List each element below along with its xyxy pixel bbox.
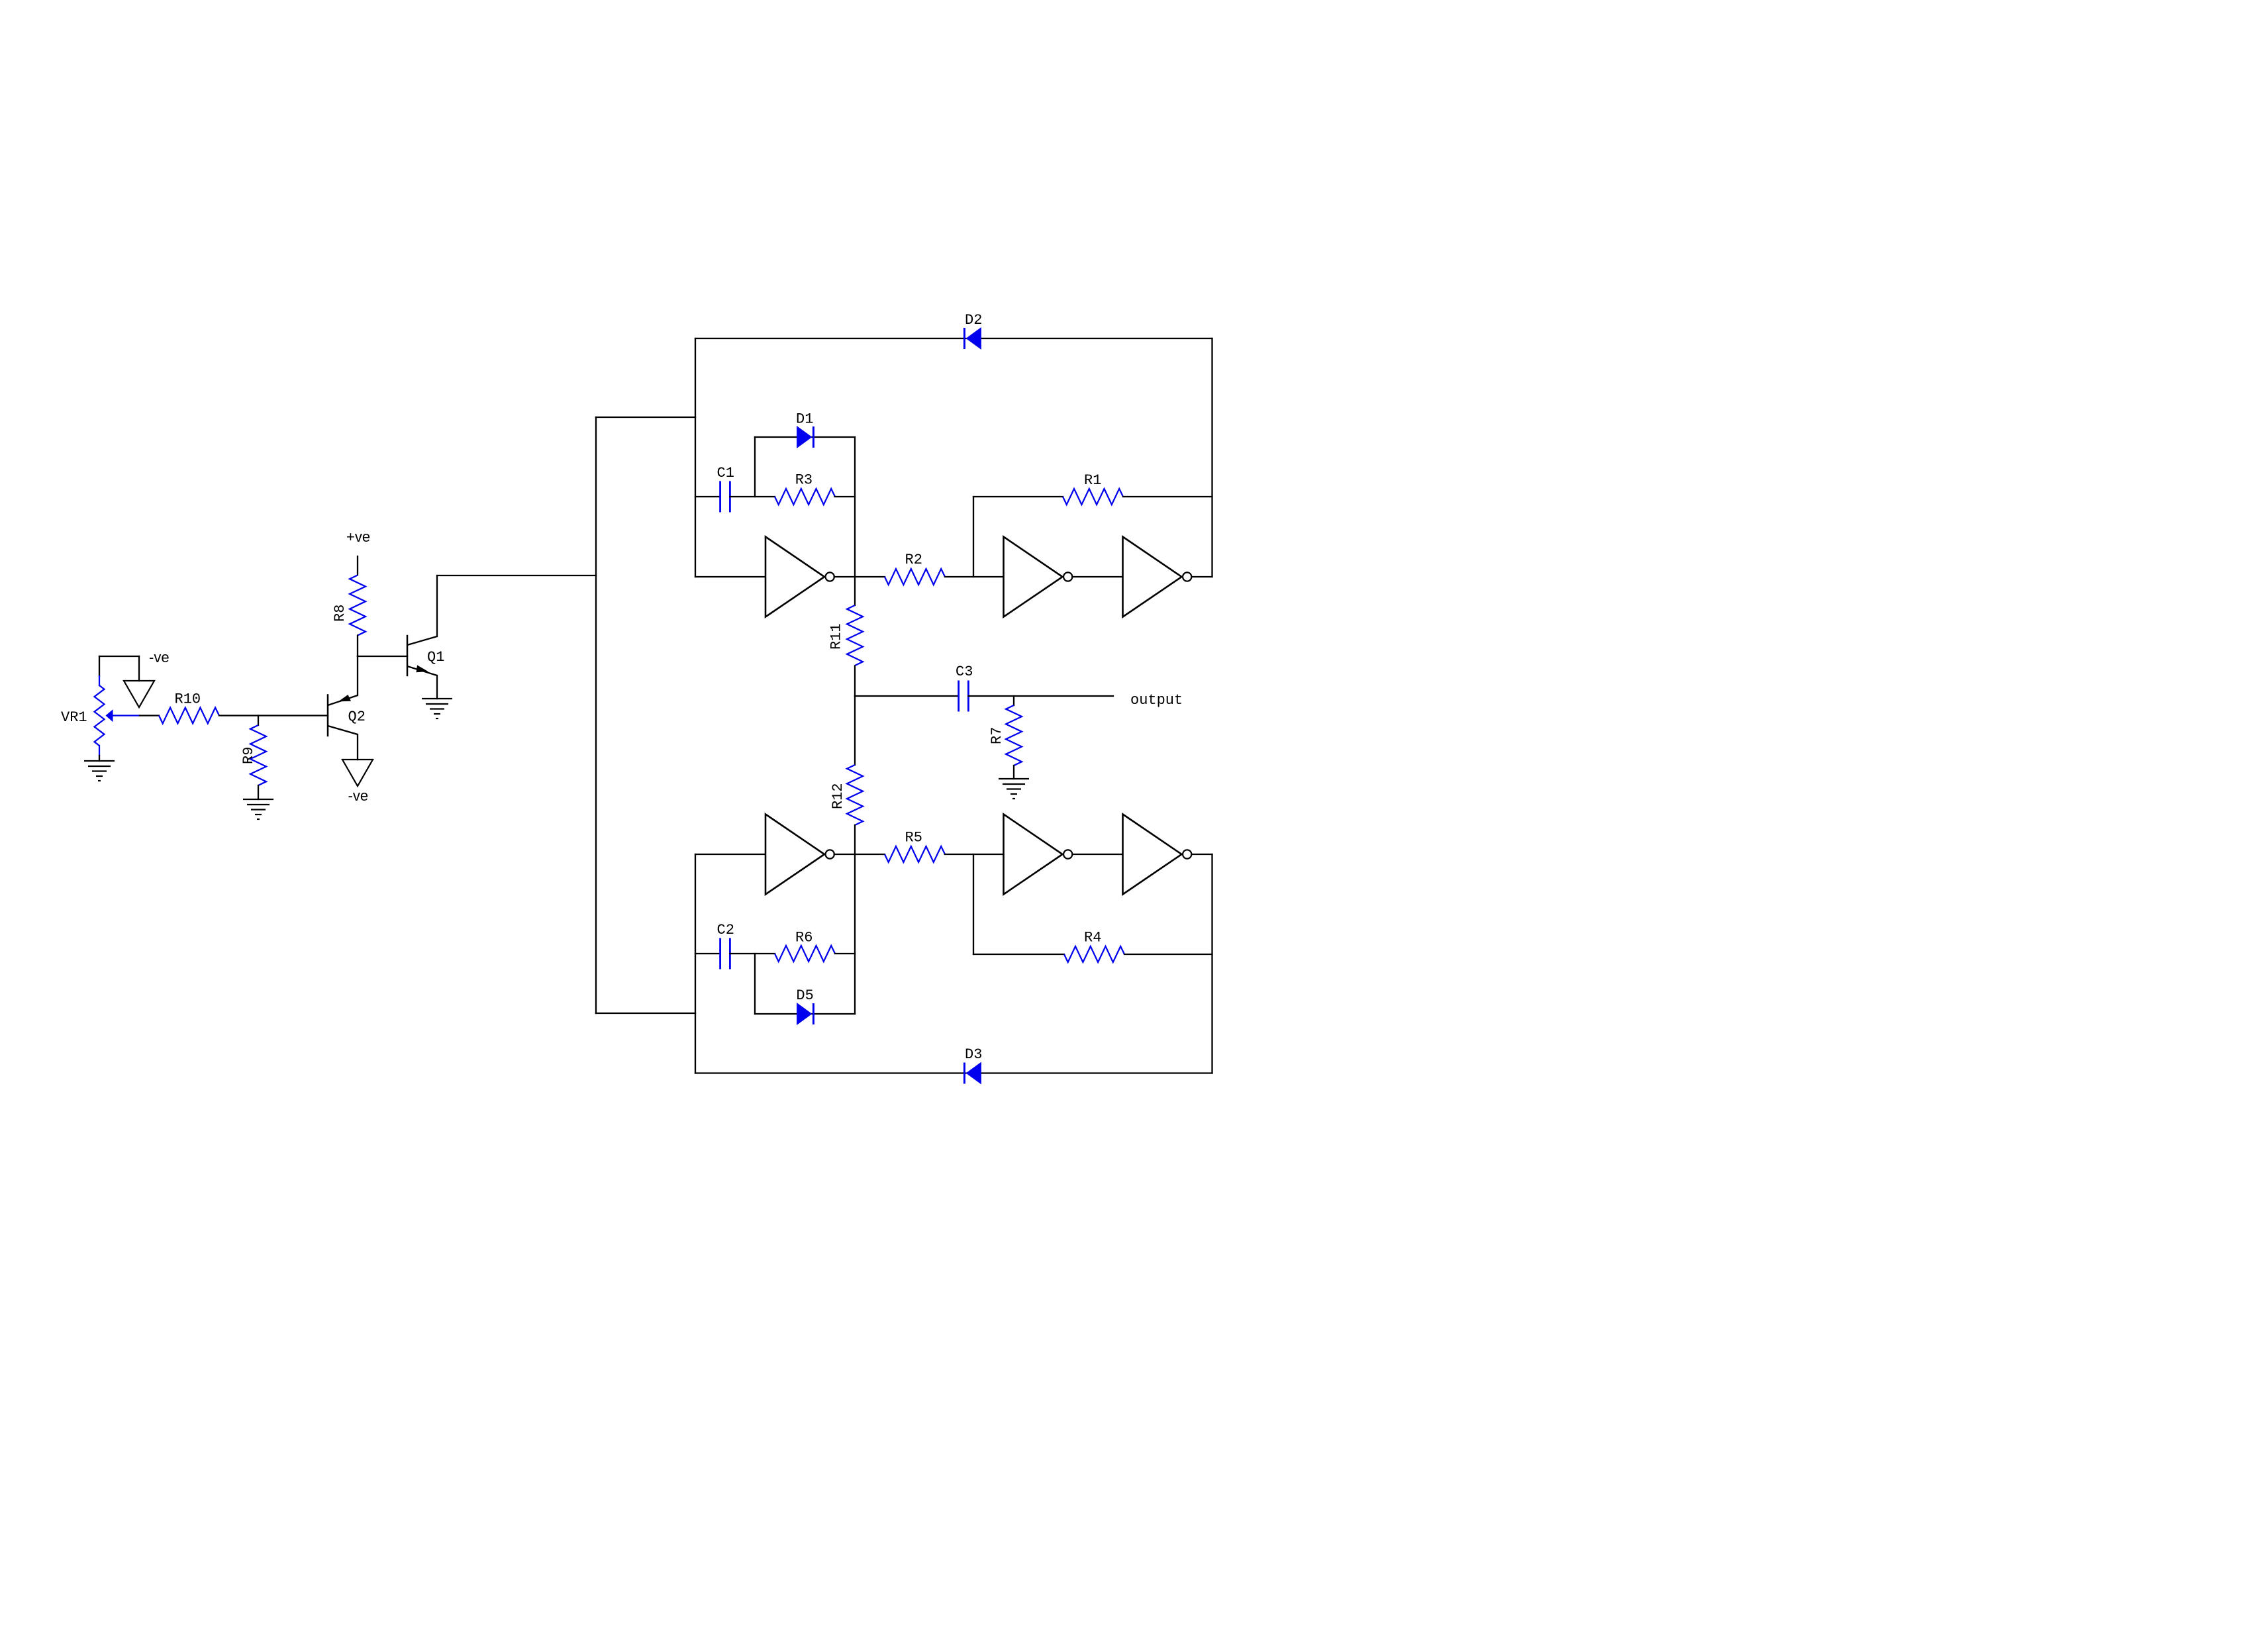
resistor R4 — [1064, 946, 1124, 962]
svg-text:D1: D1 — [796, 411, 813, 428]
wire — [1191, 854, 1212, 855]
wire — [854, 696, 856, 765]
wire — [834, 576, 885, 577]
diode D5 — [797, 1003, 812, 1024]
svg-text:R2: R2 — [905, 552, 922, 568]
wire — [754, 954, 756, 1014]
resistor R12 — [847, 765, 863, 825]
wire — [973, 497, 974, 577]
svg-text:R3: R3 — [795, 472, 813, 489]
svg-text:output: output — [1130, 692, 1183, 709]
svg-text:D5: D5 — [796, 987, 813, 1004]
wire — [258, 785, 259, 799]
svg-text:VR1: VR1 — [61, 709, 87, 726]
diode D2 — [966, 328, 981, 349]
diode D1 — [797, 426, 812, 448]
wire — [357, 734, 358, 760]
wire — [596, 417, 695, 418]
wire — [595, 417, 597, 1013]
svg-text:-ve: -ve — [149, 649, 170, 666]
svg-text:R9: R9 — [240, 747, 257, 764]
capacitor C1 — [719, 481, 721, 513]
wire — [1123, 496, 1212, 497]
wire — [854, 825, 856, 854]
inverter U2 — [1004, 537, 1063, 617]
wire — [695, 854, 765, 855]
wire — [1072, 576, 1122, 577]
wire — [695, 576, 765, 577]
wire — [835, 496, 856, 497]
wire — [755, 1013, 855, 1015]
ground (Q1) — [422, 698, 452, 699]
svg-text:C1: C1 — [717, 465, 734, 481]
wire — [138, 656, 140, 681]
ground (R7) — [999, 778, 1029, 779]
power -ve symbol (near VR1) — [124, 681, 154, 707]
svg-text:Q2: Q2 — [348, 709, 366, 725]
wire — [973, 496, 1063, 497]
resistor R5 — [885, 846, 945, 862]
wire — [436, 575, 438, 636]
resistor R2 — [885, 569, 945, 585]
svg-text:Q1: Q1 — [427, 649, 444, 666]
wire — [1211, 338, 1212, 577]
resistor R8 — [350, 575, 366, 636]
potentiometer VR1 — [95, 685, 105, 746]
wire — [695, 338, 1212, 339]
wire — [854, 666, 856, 697]
resistor R10 — [159, 708, 219, 724]
svg-text:R7: R7 — [989, 727, 1005, 744]
wire — [140, 715, 159, 716]
capacitor C2 — [719, 938, 721, 970]
svg-text:R10: R10 — [175, 691, 201, 708]
wire — [695, 854, 696, 1073]
svg-text:R1: R1 — [1084, 472, 1101, 489]
svg-text:C2: C2 — [717, 922, 734, 938]
ground (R9) — [243, 799, 273, 800]
wire — [730, 953, 775, 954]
svg-text:R6: R6 — [795, 930, 813, 946]
wire — [854, 437, 856, 605]
wire — [695, 338, 696, 577]
svg-text:+ve: +ve — [346, 528, 370, 545]
wire — [1211, 854, 1212, 1073]
wire — [258, 716, 259, 726]
wire — [1191, 576, 1212, 577]
inverter U1 — [765, 537, 824, 617]
wire — [854, 854, 856, 1014]
wire — [437, 575, 596, 576]
wire — [436, 675, 438, 699]
wire — [968, 695, 1113, 697]
wire — [755, 436, 855, 438]
wire — [973, 854, 974, 954]
ground (VR1) — [84, 760, 115, 762]
wire — [973, 954, 1064, 955]
wire — [1124, 954, 1212, 955]
wire — [834, 854, 885, 855]
resistor R11 — [847, 605, 863, 666]
svg-text:R12: R12 — [830, 783, 846, 809]
svg-text:-ve: -ve — [348, 787, 369, 804]
diode D3 — [966, 1063, 981, 1084]
wire — [1013, 696, 1014, 705]
resistor R1 — [1063, 489, 1123, 505]
transistor Q2 — [327, 695, 329, 736]
wire — [99, 756, 100, 761]
svg-text:R8: R8 — [332, 605, 348, 622]
inverter U5 — [1004, 815, 1063, 895]
wire — [358, 656, 407, 657]
wire — [945, 854, 1004, 855]
power -ve symbol (Q2 collector) — [342, 760, 373, 786]
svg-text:R4: R4 — [1084, 930, 1101, 946]
resistor R9 — [250, 725, 266, 785]
svg-text:R5: R5 — [905, 830, 922, 846]
resistor R3 — [775, 489, 835, 505]
resistor R7 — [1006, 705, 1022, 766]
wire — [357, 556, 358, 575]
wire — [99, 656, 139, 657]
capacitor C3 — [958, 681, 960, 712]
transistor Q1 — [407, 636, 409, 675]
wire — [754, 437, 756, 497]
wire — [730, 496, 775, 497]
wire — [99, 656, 100, 676]
svg-text:D3: D3 — [965, 1046, 982, 1063]
inverter U6 — [1123, 815, 1182, 895]
resistor R6 — [775, 946, 835, 962]
svg-text:R11: R11 — [828, 623, 845, 650]
inverter U4 — [765, 815, 824, 895]
wire — [695, 953, 720, 954]
svg-text:C3: C3 — [956, 664, 973, 680]
wire — [596, 1013, 695, 1014]
wire — [357, 636, 358, 657]
wire — [945, 576, 1004, 577]
inverter U3 — [1123, 537, 1182, 617]
wire — [855, 695, 958, 697]
wire — [695, 1072, 1212, 1073]
wire — [835, 953, 855, 954]
wire — [695, 496, 720, 497]
wire — [1013, 766, 1014, 779]
wire — [1072, 854, 1122, 855]
svg-text:D2: D2 — [965, 312, 982, 328]
wire — [357, 656, 358, 695]
wire — [219, 715, 328, 716]
